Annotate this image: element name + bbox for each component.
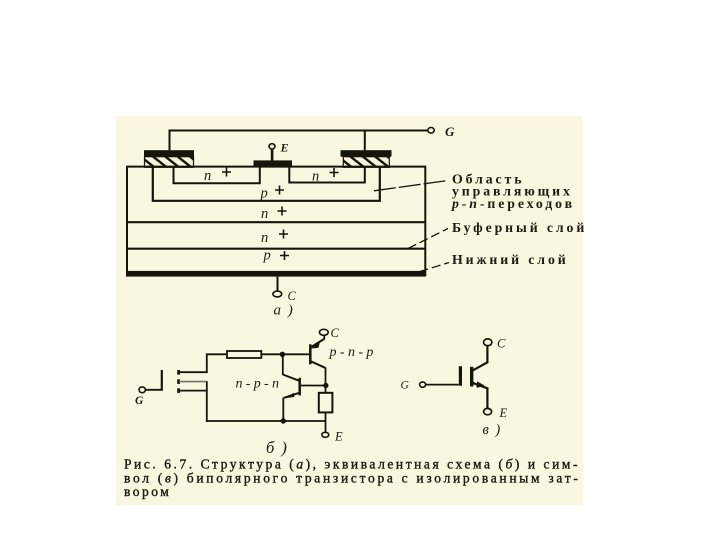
transistor Q2 n-p-n: base lead to right node: [300, 385, 326, 387]
wire: G to gate (symbol v): [426, 384, 459, 386]
terminal C (symbol v): [484, 337, 507, 351]
junction node (top rail): [280, 352, 285, 357]
p+ well boundary: [153, 167, 380, 201]
terminal E (symbol v): [484, 406, 508, 420]
svg-text:G: G: [401, 380, 410, 392]
svg-text:C: C: [288, 289, 297, 303]
resistor R2 (vertical, body shunt): [319, 393, 333, 413]
label n+ (left well): [204, 168, 231, 185]
terminal E (circuit b): [322, 430, 343, 444]
wire: G to gate bar (circuit b): [145, 389, 161, 391]
label n+ (right well): [312, 168, 339, 185]
wire: top rail right segment to pnp base: [261, 353, 309, 355]
wire: top rail left segment: [206, 353, 227, 355]
wire: node down to npn collector: [282, 354, 284, 375]
svg-text:Рис. 6.7. Структура (а), эквив: Рис. 6.7. Структура (а), эквивалентная с…: [124, 457, 580, 472]
terminal G (symbol v): [401, 380, 426, 392]
svg-text:E: E: [280, 141, 289, 155]
n+ well right: [289, 167, 365, 183]
label n+ (buffer layer): [261, 230, 288, 247]
label n+ (drift layer): [261, 206, 287, 222]
transistor Q1 p-n-p: emitter diagonal with arrow to C: [311, 339, 325, 349]
leader line to p-n junction region: [374, 181, 448, 191]
IGBT body bar (symbol v): [470, 367, 473, 387]
label p+ (bottom layer): [263, 248, 290, 264]
semiconductor body outline (structure a): [127, 167, 425, 276]
svg-text:Нижний слой: Нижний слой: [452, 252, 569, 267]
svg-text:G: G: [135, 395, 144, 407]
wire: pnp collector vertical down to resistor: [325, 367, 327, 392]
collector metal bottom bar: [126, 271, 426, 277]
junction node (bottom rail): [281, 418, 286, 423]
layer boundary line (top of buffer layer): [127, 221, 426, 223]
wire: drain vertical up (circuit b): [206, 354, 208, 372]
svg-text:G: G: [445, 124, 455, 139]
leader line to buffer layer: [408, 229, 448, 249]
wire: resistor bottom to terminal E: [325, 412, 327, 432]
svg-text:б ): б ): [266, 438, 288, 457]
transistor Q1 p-n-p: collector diagonal: [311, 361, 326, 368]
svg-text:n: n: [261, 230, 268, 246]
svg-text:вол (в) биполярного транзистор: вол (в) биполярного транзистора с изолир…: [124, 471, 581, 486]
MOSFET body lead: [179, 381, 208, 383]
transistor Q1 p-n-p: base bar: [309, 344, 312, 364]
wire: bottom rail: [206, 420, 326, 422]
MOSFET drain lead: [179, 371, 208, 373]
IGBT emitter lead with arrow (symbol v): [473, 381, 488, 408]
transistor Q2 n-p-n: collector diagonal: [283, 375, 300, 381]
svg-text:n: n: [261, 206, 268, 222]
terminal G (circuit b): [135, 387, 145, 407]
gate electrode left (hatched with black cap): [144, 150, 194, 167]
svg-text:C: C: [497, 337, 506, 351]
wire: pnp emitter vertical to terminal C: [323, 335, 325, 339]
MOSFET gate bar (circuit b): [161, 370, 163, 391]
svg-text:а ): а ): [274, 302, 295, 318]
svg-text:p: p: [260, 186, 268, 202]
label: Область управляющих p-n-переходов: [451, 172, 575, 211]
IGBT gate bar (symbol v): [459, 366, 462, 386]
resistor R1 (horizontal, gate series): [227, 351, 261, 358]
MOSFET source lead: [179, 390, 208, 392]
label p+ (p-well): [260, 186, 285, 202]
layer boundary line (top of bottom p+ layer): [127, 248, 426, 250]
svg-text:р-n-переходов: р-n-переходов: [451, 196, 575, 211]
svg-text:E: E: [499, 406, 508, 420]
junction node (npn base / resistor top): [323, 383, 328, 388]
terminal C (circuit b): [319, 326, 339, 340]
gate electrode right (hatched with black cap): [341, 150, 392, 167]
terminal G (structure a): [428, 124, 455, 139]
svg-text:Буферный слой: Буферный слой: [452, 220, 587, 235]
terminal C (structure a): [273, 277, 297, 303]
svg-text:вором: вором: [124, 484, 171, 499]
emitter electrode E (black contact): [254, 150, 293, 167]
n+ well left: [174, 167, 260, 183]
svg-text:n-p-n: n-p-n: [236, 377, 283, 392]
transistor Q2 n-p-n: base bar: [298, 378, 301, 396]
svg-text:C: C: [331, 326, 340, 340]
IGBT collector lead (symbol v): [473, 346, 488, 371]
svg-text:p: p: [263, 248, 271, 264]
wire: source vertical down to bottom rail (circuit b): [206, 382, 208, 422]
MOSFET channel dashes: [177, 370, 180, 393]
svg-text:E: E: [334, 430, 343, 444]
wire: gate top wire to G terminal (structure a): [170, 131, 428, 151]
transistor Q2 n-p-n: emitter diagonal with arrow: [284, 393, 300, 399]
svg-text:n: n: [204, 168, 211, 184]
wire: npn emitter vertical down: [282, 397, 284, 422]
leader line to bottom layer: [407, 263, 449, 276]
svg-text:n: n: [312, 169, 319, 185]
terminal E (structure a): [269, 141, 289, 155]
svg-text:p-n-p: p-n-p: [329, 345, 377, 360]
svg-text:в ): в ): [483, 422, 502, 438]
